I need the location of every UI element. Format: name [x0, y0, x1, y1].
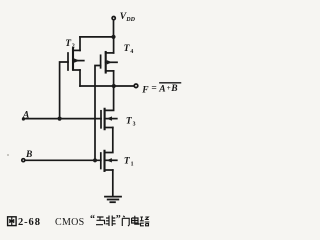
scan speck	[7, 154, 9, 156]
label B	[25, 150, 32, 160]
label T1	[124, 157, 134, 168]
output terminal F	[134, 84, 138, 88]
wire input B line	[25, 159, 101, 161]
transistor T1 (NMOS)	[101, 151, 117, 171]
label F = A·B (NAND output)	[141, 83, 177, 95]
wire T4 source to output	[113, 71, 115, 86]
svg-text:+: +	[167, 84, 171, 92]
svg-text:DD: DD	[125, 17, 135, 23]
wire T1 source to ground	[112, 170, 114, 197]
node B junction	[93, 158, 97, 162]
wire output line	[80, 85, 134, 87]
wire VDD rail	[80, 36, 114, 38]
svg-text:3: 3	[133, 121, 136, 127]
svg-text:2-68: 2-68	[18, 217, 41, 228]
wire input A line	[23, 118, 101, 120]
label A	[22, 111, 29, 121]
svg-text:1: 1	[131, 162, 134, 168]
svg-text:2: 2	[72, 44, 75, 50]
label T3	[126, 116, 136, 127]
input terminal B	[22, 159, 25, 162]
caption 图 2-68 CMOS "与非" 门电路	[8, 214, 150, 228]
VDD label	[120, 12, 136, 23]
路 glyph	[140, 217, 149, 226]
wire rail down to T2 drain	[79, 37, 81, 51]
node VDD rail junction	[111, 35, 115, 39]
非 glyph	[106, 216, 116, 227]
transistor T4 (PMOS)	[101, 52, 117, 73]
input terminal A	[22, 117, 25, 120]
transistor T3 (NMOS)	[101, 109, 117, 129]
门 glyph	[122, 216, 129, 226]
VDD terminal	[112, 17, 115, 20]
svg-text:4: 4	[130, 49, 133, 55]
svg-text:CMOS: CMOS	[55, 217, 85, 228]
wire T2 source to output	[79, 70, 81, 86]
wire rail down to T4 drain	[113, 37, 115, 53]
wire VDD to rail	[113, 20, 115, 37]
label T4	[124, 44, 134, 55]
电 glyph	[132, 216, 139, 224]
transistor T2 (PMOS)	[68, 49, 84, 71]
图 glyph	[8, 217, 17, 226]
overline of A·B	[160, 82, 181, 84]
与 glyph	[96, 217, 105, 225]
label T2	[65, 39, 75, 50]
svg-text:”: ”	[116, 214, 121, 225]
svg-text:“: “	[90, 214, 95, 225]
svg-text:F: F	[141, 86, 149, 96]
svg-text:=: =	[151, 83, 156, 93]
svg-text:B: B	[25, 150, 32, 160]
wire T2 gate lead	[60, 62, 68, 119]
wire T4 gate lead to B net	[95, 66, 101, 161]
ground	[105, 197, 121, 203]
wire output down to T3 drain	[105, 86, 114, 110]
wire T3 source to T1 drain	[105, 128, 113, 153]
svg-text:A: A	[158, 84, 165, 94]
svg-text:B: B	[170, 84, 177, 94]
node output junction	[112, 84, 116, 88]
node A junction	[58, 117, 62, 121]
